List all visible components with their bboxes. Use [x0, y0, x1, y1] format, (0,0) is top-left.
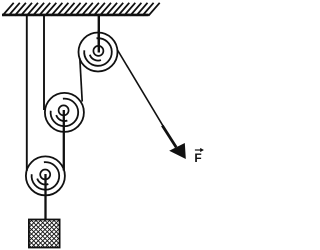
force rope: [118, 50, 176, 147]
rope from ceiling to bottom pulley (left): [26, 16, 28, 171]
bottom pulley U3: [26, 156, 65, 195]
middle pulley U2: [45, 93, 84, 132]
label F vector: [194, 148, 204, 165]
force arrowhead: [169, 143, 186, 159]
rod from ceiling to top pulley: [98, 16, 100, 53]
rope top pulley to middle pulley: [80, 58, 82, 102]
ceiling bar: [2, 14, 149, 17]
ceiling hatching: [3, 3, 160, 16]
rope from ceiling to middle pulley (left): [43, 16, 45, 110]
weight box W: [29, 220, 60, 248]
top pulley U1: [79, 33, 118, 72]
rod bottom pulley to weight: [44, 174, 46, 220]
rod into top pulley hub: [98, 30, 100, 53]
svg-text:F: F: [194, 151, 201, 165]
rope middle pulley axle to bottom pulley: [63, 110, 65, 171]
